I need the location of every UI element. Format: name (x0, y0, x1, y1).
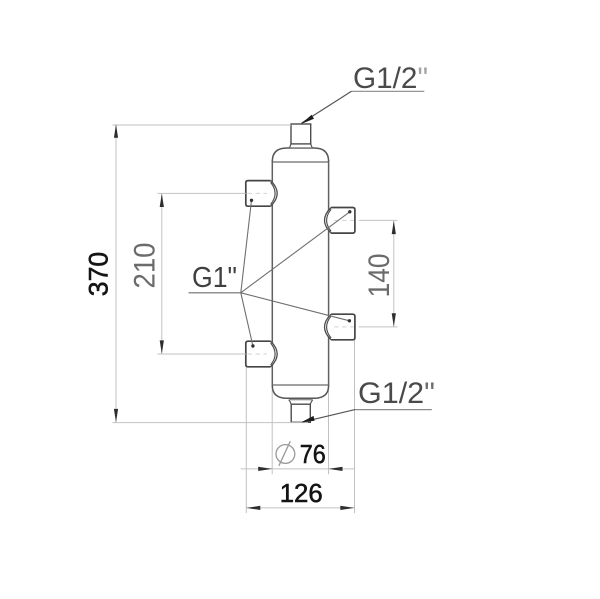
dim 140 extension top (359, 219, 398, 221)
dim 210 line (161, 194, 163, 354)
leader G1 to upper-left socket (241, 200, 252, 292)
svg-text:G1/2": G1/2" (358, 377, 435, 410)
leader G1/2 bottom underline (355, 409, 432, 411)
leader G1 to lower-left socket (241, 293, 253, 346)
top collar (289, 144, 312, 148)
leader G1/2 bottom diagonal (303, 410, 355, 422)
bottom weld seam (272, 384, 328, 386)
dim 126 arrow left (246, 506, 260, 510)
dim 210 arrow top (160, 194, 164, 208)
leader G1/2 top underline (352, 90, 425, 92)
top dome (272, 148, 328, 162)
upper-right centre dashes (334, 219, 354, 221)
upper-left centre dashes (248, 192, 268, 194)
dim 76 arrow right (329, 467, 343, 471)
dim 140 line (393, 221, 395, 327)
svg-text:210: 210 (128, 243, 161, 289)
dim 370 arrow top (114, 124, 118, 138)
bottom collar top line (289, 399, 313, 401)
bottom collar (289, 400, 313, 405)
bottom nipple G1/2 (291, 404, 310, 422)
dim 140 arrow top (392, 221, 396, 235)
dim 370 extension bottom (113, 422, 309, 424)
dim 370 arrow bottom (114, 409, 118, 423)
vessel shell right edge (328, 160, 330, 386)
leader G1/2 top diagonal (302, 91, 352, 123)
leader G1 to lower-right socket (241, 293, 350, 321)
dim 126 line (246, 507, 354, 509)
lower-right socket G1 (325, 314, 355, 340)
vessel shell left edge (271, 160, 273, 386)
dim 210 arrow bottom (160, 340, 164, 354)
bottom dome (272, 386, 328, 399)
dim 370 line (115, 125, 117, 423)
svg-text:140: 140 (363, 253, 396, 297)
top weld seam (272, 161, 328, 163)
lower-right centre dashes (334, 326, 354, 328)
extension line x354.5 (126 right) (354, 341, 356, 514)
leader G1 to upper-right socket (241, 212, 350, 293)
dot upper-left (250, 199, 253, 202)
upper-right socket G1 (325, 208, 355, 234)
lower-left centre dashes (248, 353, 268, 355)
svg-text:126: 126 (280, 478, 323, 508)
extension line x272 (dia76 left) (271, 386, 273, 474)
dim 210 extension bottom (158, 353, 246, 355)
dim 140 arrow bottom (392, 313, 396, 327)
dot upper-right (348, 210, 351, 213)
svg-text:G1/2": G1/2" (353, 62, 428, 95)
dim 140 extension bottom (359, 326, 398, 328)
dim 126 arrow right (340, 506, 354, 510)
svg-text:370: 370 (83, 252, 113, 297)
dim 210 extension top (158, 192, 246, 194)
dim 76 arrow left (258, 467, 272, 471)
diameter symbol (276, 441, 295, 466)
upper-left socket G1 (246, 181, 277, 207)
dot lower-right (348, 319, 351, 322)
dot lower-left (251, 344, 254, 347)
leader G1/2 bottom arrowhead (301, 416, 315, 423)
extension line x246.3 (126 left) (245, 368, 247, 514)
svg-text:76: 76 (300, 439, 326, 469)
top nipple G1/2 (291, 124, 311, 144)
leader G1 horizontal (189, 292, 241, 294)
lower-left socket G1 (246, 341, 277, 367)
top collar base line (289, 147, 312, 149)
svg-text:G1": G1" (192, 262, 237, 294)
leader G1/2 top arrowhead (301, 115, 314, 124)
extension line x328.5 (dia76 right) (328, 386, 330, 474)
dim 76 line (241, 468, 355, 470)
dim 370 extension top (113, 124, 292, 126)
